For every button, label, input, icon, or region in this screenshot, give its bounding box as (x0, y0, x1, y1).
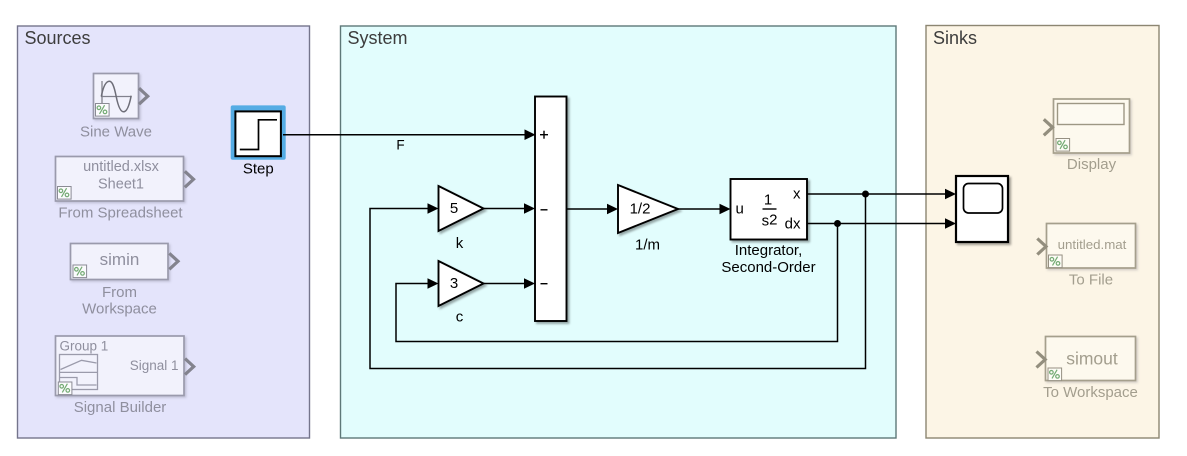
label From Spreadsheet (58, 205, 183, 222)
svg-text:1/2: 1/2 (630, 201, 651, 218)
label k (456, 235, 464, 252)
svg-text:dx: dx (785, 216, 801, 233)
label 1/m (635, 237, 660, 254)
svg-text:From Spreadsheet: From Spreadsheet (58, 205, 183, 222)
wire gain 1/m to Integrator (678, 204, 731, 215)
label From Workspace (82, 284, 157, 318)
svg-text:Integrator,: Integrator, (735, 242, 803, 259)
area System (341, 26, 897, 438)
gain 1/m (618, 185, 678, 233)
svg-text:untitled.xlsx: untitled.xlsx (83, 159, 160, 175)
svg-text:1: 1 (764, 192, 772, 209)
svg-text:Signal 1: Signal 1 (130, 358, 179, 373)
block Integrator Second-Order (731, 179, 808, 240)
wire Sum to gain 1/m (567, 204, 619, 215)
port in To Workspace (1037, 352, 1046, 368)
svg-text:c: c (456, 309, 464, 326)
label To Workspace (1043, 384, 1138, 401)
label Step (243, 161, 274, 178)
badge % Signal Builder (58, 382, 72, 395)
block To File (commented out) (1047, 224, 1136, 269)
wire Integrator x to Scope input 1 (807, 189, 956, 200)
badge % Sine Wave (96, 104, 110, 117)
svg-text:k: k (456, 235, 464, 252)
port out Signal Builder (185, 359, 194, 375)
area Sources (18, 26, 310, 438)
block Signal Builder (commented out) (56, 336, 185, 396)
label c (456, 309, 464, 326)
junction node dx (834, 220, 841, 227)
wire Step to Sum (signal F) (283, 129, 536, 140)
label To File (1069, 272, 1113, 289)
port out Sine Wave (139, 88, 148, 104)
svg-text:simout: simout (1066, 349, 1118, 369)
wire dx feedback to gain c (396, 224, 838, 342)
svg-text:Sinks: Sinks (933, 28, 977, 48)
label Integrator, Second-Order (721, 242, 815, 276)
svg-text:Sources: Sources (25, 28, 91, 48)
svg-text:To Workspace: To Workspace (1043, 384, 1138, 401)
badge % From Workspace (73, 265, 87, 278)
gain k (439, 186, 484, 231)
wire x feedback to gain k (370, 194, 866, 369)
port out From Spreadsheet (185, 171, 194, 187)
svg-text:Group 1: Group 1 (60, 339, 109, 354)
selection halo Step (231, 105, 286, 159)
svg-text:Workspace: Workspace (82, 301, 157, 318)
svg-text:F: F (396, 138, 404, 153)
svg-text:3: 3 (450, 275, 458, 292)
block Step (selected) (235, 111, 281, 156)
wire gain c to Sum (484, 278, 536, 289)
port in Display (1044, 119, 1053, 135)
svg-text:u: u (736, 201, 744, 218)
svg-text:untitled.mat: untitled.mat (1058, 237, 1127, 252)
svg-text:simin: simin (100, 250, 140, 269)
badge % Display (1056, 139, 1070, 152)
block Sine Wave (commented out) (94, 74, 139, 119)
label F (396, 138, 404, 153)
port out From Workspace (169, 253, 178, 269)
badge % From Spreadsheet (58, 187, 72, 200)
svg-text:1/m: 1/m (635, 237, 660, 254)
block Sum (535, 97, 567, 322)
label Signal Builder (74, 399, 167, 416)
svg-text:s2: s2 (762, 211, 778, 229)
svg-text:Sheet1: Sheet1 (98, 177, 144, 193)
gain c (439, 261, 484, 306)
block To Workspace (commented out) (1046, 337, 1136, 381)
svg-text:Second-Order: Second-Order (721, 259, 815, 276)
wire gain k to Sum (484, 203, 536, 214)
label Display (1067, 156, 1117, 173)
badge % To File (1049, 255, 1063, 268)
label Sine Wave (80, 124, 152, 141)
area Sinks (926, 26, 1159, 439)
badge % To Workspace (1048, 368, 1062, 381)
block Scope (956, 176, 1008, 242)
block Display (commented out) (1054, 99, 1130, 153)
svg-text:5: 5 (450, 200, 458, 217)
wire Integrator dx to Scope input 2 (807, 218, 956, 229)
block From Spreadsheet (commented out) (56, 157, 184, 202)
port in To File (1037, 239, 1046, 255)
svg-text:x: x (793, 186, 801, 203)
svg-text:Step: Step (243, 161, 274, 178)
svg-text:Signal Builder: Signal Builder (74, 399, 167, 416)
block From Workspace (commented out) (71, 244, 169, 280)
svg-text:Display: Display (1067, 156, 1117, 173)
svg-text:From: From (102, 284, 137, 301)
svg-text:Sine Wave: Sine Wave (80, 124, 152, 141)
junction node x (862, 191, 869, 198)
svg-text:To File: To File (1069, 272, 1113, 289)
svg-text:System: System (348, 28, 408, 48)
